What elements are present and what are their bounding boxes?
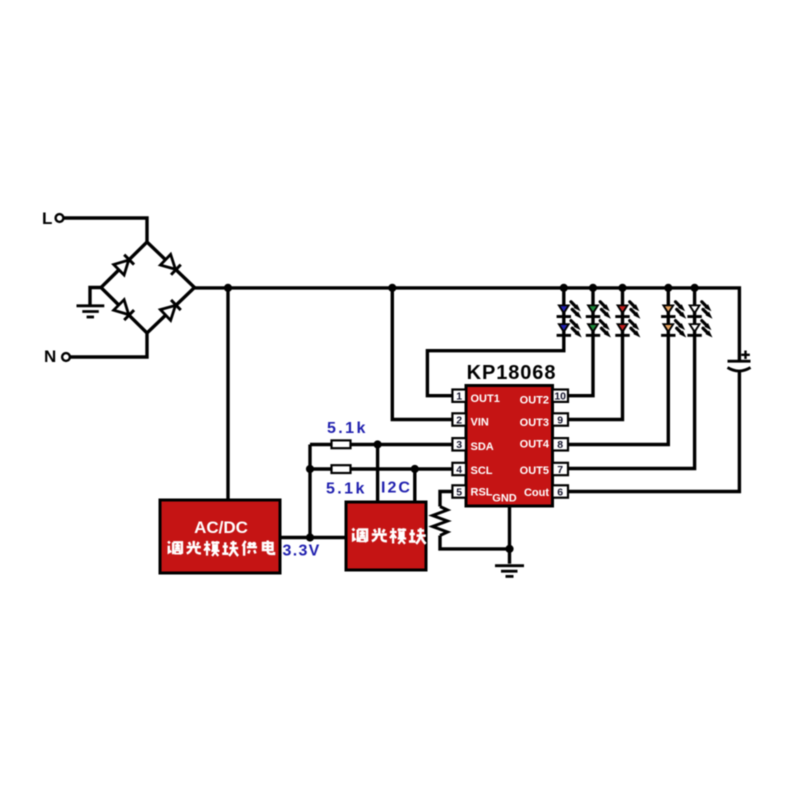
svg-text:SDA: SDA — [471, 441, 494, 453]
svg-text:5.1k: 5.1k — [326, 481, 367, 498]
svg-text:VIN: VIN — [471, 416, 489, 428]
svg-text:OUT4: OUT4 — [520, 439, 550, 451]
svg-text:8: 8 — [557, 439, 563, 451]
svg-text:2: 2 — [456, 414, 462, 426]
svg-text:OUT2: OUT2 — [520, 394, 549, 406]
svg-text:5: 5 — [456, 486, 462, 498]
svg-text:3.3V: 3.3V — [283, 543, 321, 560]
svg-text:5.1k: 5.1k — [327, 420, 368, 437]
svg-text:1: 1 — [456, 391, 462, 403]
svg-text:3: 3 — [456, 439, 462, 451]
svg-text:OUT3: OUT3 — [520, 417, 549, 429]
svg-text:I2C: I2C — [381, 480, 412, 497]
svg-text:L: L — [42, 209, 52, 228]
svg-text:GND: GND — [492, 493, 517, 505]
svg-text:AC/DC: AC/DC — [194, 518, 248, 537]
svg-text:7: 7 — [557, 464, 563, 476]
svg-text:N: N — [44, 347, 56, 366]
svg-text:6: 6 — [557, 486, 563, 498]
svg-text:9: 9 — [557, 414, 563, 426]
svg-text:Cout: Cout — [524, 487, 549, 499]
svg-text:OUT1: OUT1 — [471, 393, 500, 405]
svg-text:OUT5: OUT5 — [520, 465, 549, 477]
svg-text:KP18068: KP18068 — [467, 362, 557, 384]
svg-text:SCL: SCL — [471, 465, 493, 477]
svg-text:4: 4 — [456, 464, 462, 476]
svg-text:RSL: RSL — [471, 486, 493, 498]
svg-text:10: 10 — [554, 391, 566, 403]
